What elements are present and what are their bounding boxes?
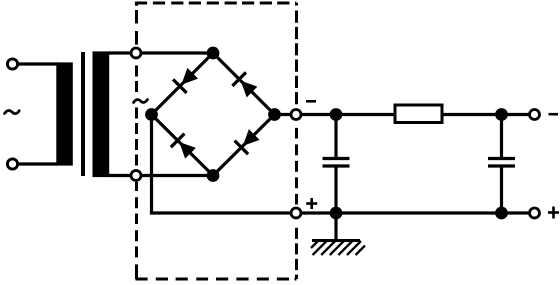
label plus at output: [548, 207, 559, 219]
label ~ secondary: [134, 100, 148, 103]
diode D1 (top-left arm): [173, 68, 198, 93]
junction C1 bottom / ground: [330, 207, 343, 220]
node top vertex of bridge: [207, 47, 220, 60]
transformer core: [81, 52, 85, 176]
bridge edge top-left: [152, 53, 214, 115]
terminal output minus: [530, 110, 540, 120]
bridge edge top-right: [213, 53, 275, 115]
capacitor C1 top lead: [334, 115, 337, 158]
resistor R1: [395, 105, 442, 123]
bridge edge bottom-right: [213, 115, 275, 176]
wire primary bottom: [13, 162, 59, 165]
terminal box right plus: [291, 208, 301, 218]
terminal output plus: [530, 208, 540, 218]
capacitor C2 top lead: [500, 115, 503, 158]
label minus at box: [306, 100, 316, 103]
diode D4 (bottom-right arm): [235, 129, 260, 154]
node bottom vertex of bridge: [207, 169, 220, 182]
diode D3 (bottom-left arm): [171, 134, 196, 159]
transformer T1 primary winding: [56, 62, 73, 165]
terminal AC input bottom: [7, 159, 17, 169]
junction C2 bottom: [495, 207, 508, 220]
label plus at box: [306, 198, 317, 209]
wire AC bottom input to bridge: [136, 174, 213, 177]
terminal box right minus: [291, 110, 301, 120]
dashed enclosure box: top edge: [135, 2, 297, 5]
capacitor C1 bottom lead: [334, 168, 337, 214]
node left vertex of bridge: [145, 108, 158, 121]
junction C2 top: [495, 108, 508, 121]
terminal box left top: [131, 48, 141, 58]
dashed enclosure box: bottom edge: [136, 278, 297, 281]
wire AC top input to bridge: [136, 51, 213, 54]
wire secondary bottom: [109, 174, 136, 177]
label minus at output: [549, 113, 559, 116]
wire secondary top: [109, 51, 136, 54]
diode D2 (top-right arm): [232, 72, 257, 97]
junction C1 top: [330, 108, 343, 121]
transformer T1 secondary winding: [93, 51, 110, 177]
wire primary top: [13, 62, 59, 65]
wire positive rail (left vertex down then right to + output): [152, 115, 531, 214]
capacitor C2 plates: [488, 157, 515, 160]
terminal AC input top: [7, 59, 17, 69]
ground stub: [334, 213, 337, 240]
capacitor C2 bottom lead: [500, 168, 503, 214]
capacitor C1 plates: [323, 157, 350, 160]
dashed enclosure box: right edge: [295, 3, 298, 279]
dashed enclosure box: left edge: [135, 3, 138, 279]
node right vertex of bridge: [268, 108, 281, 121]
ground symbol: [311, 241, 365, 256]
bridge edge bottom-left: [152, 115, 214, 176]
label ~ primary: [5, 110, 20, 113]
terminal box left bottom: [131, 171, 141, 181]
wire negative rail (right vertex to - output): [275, 113, 531, 116]
